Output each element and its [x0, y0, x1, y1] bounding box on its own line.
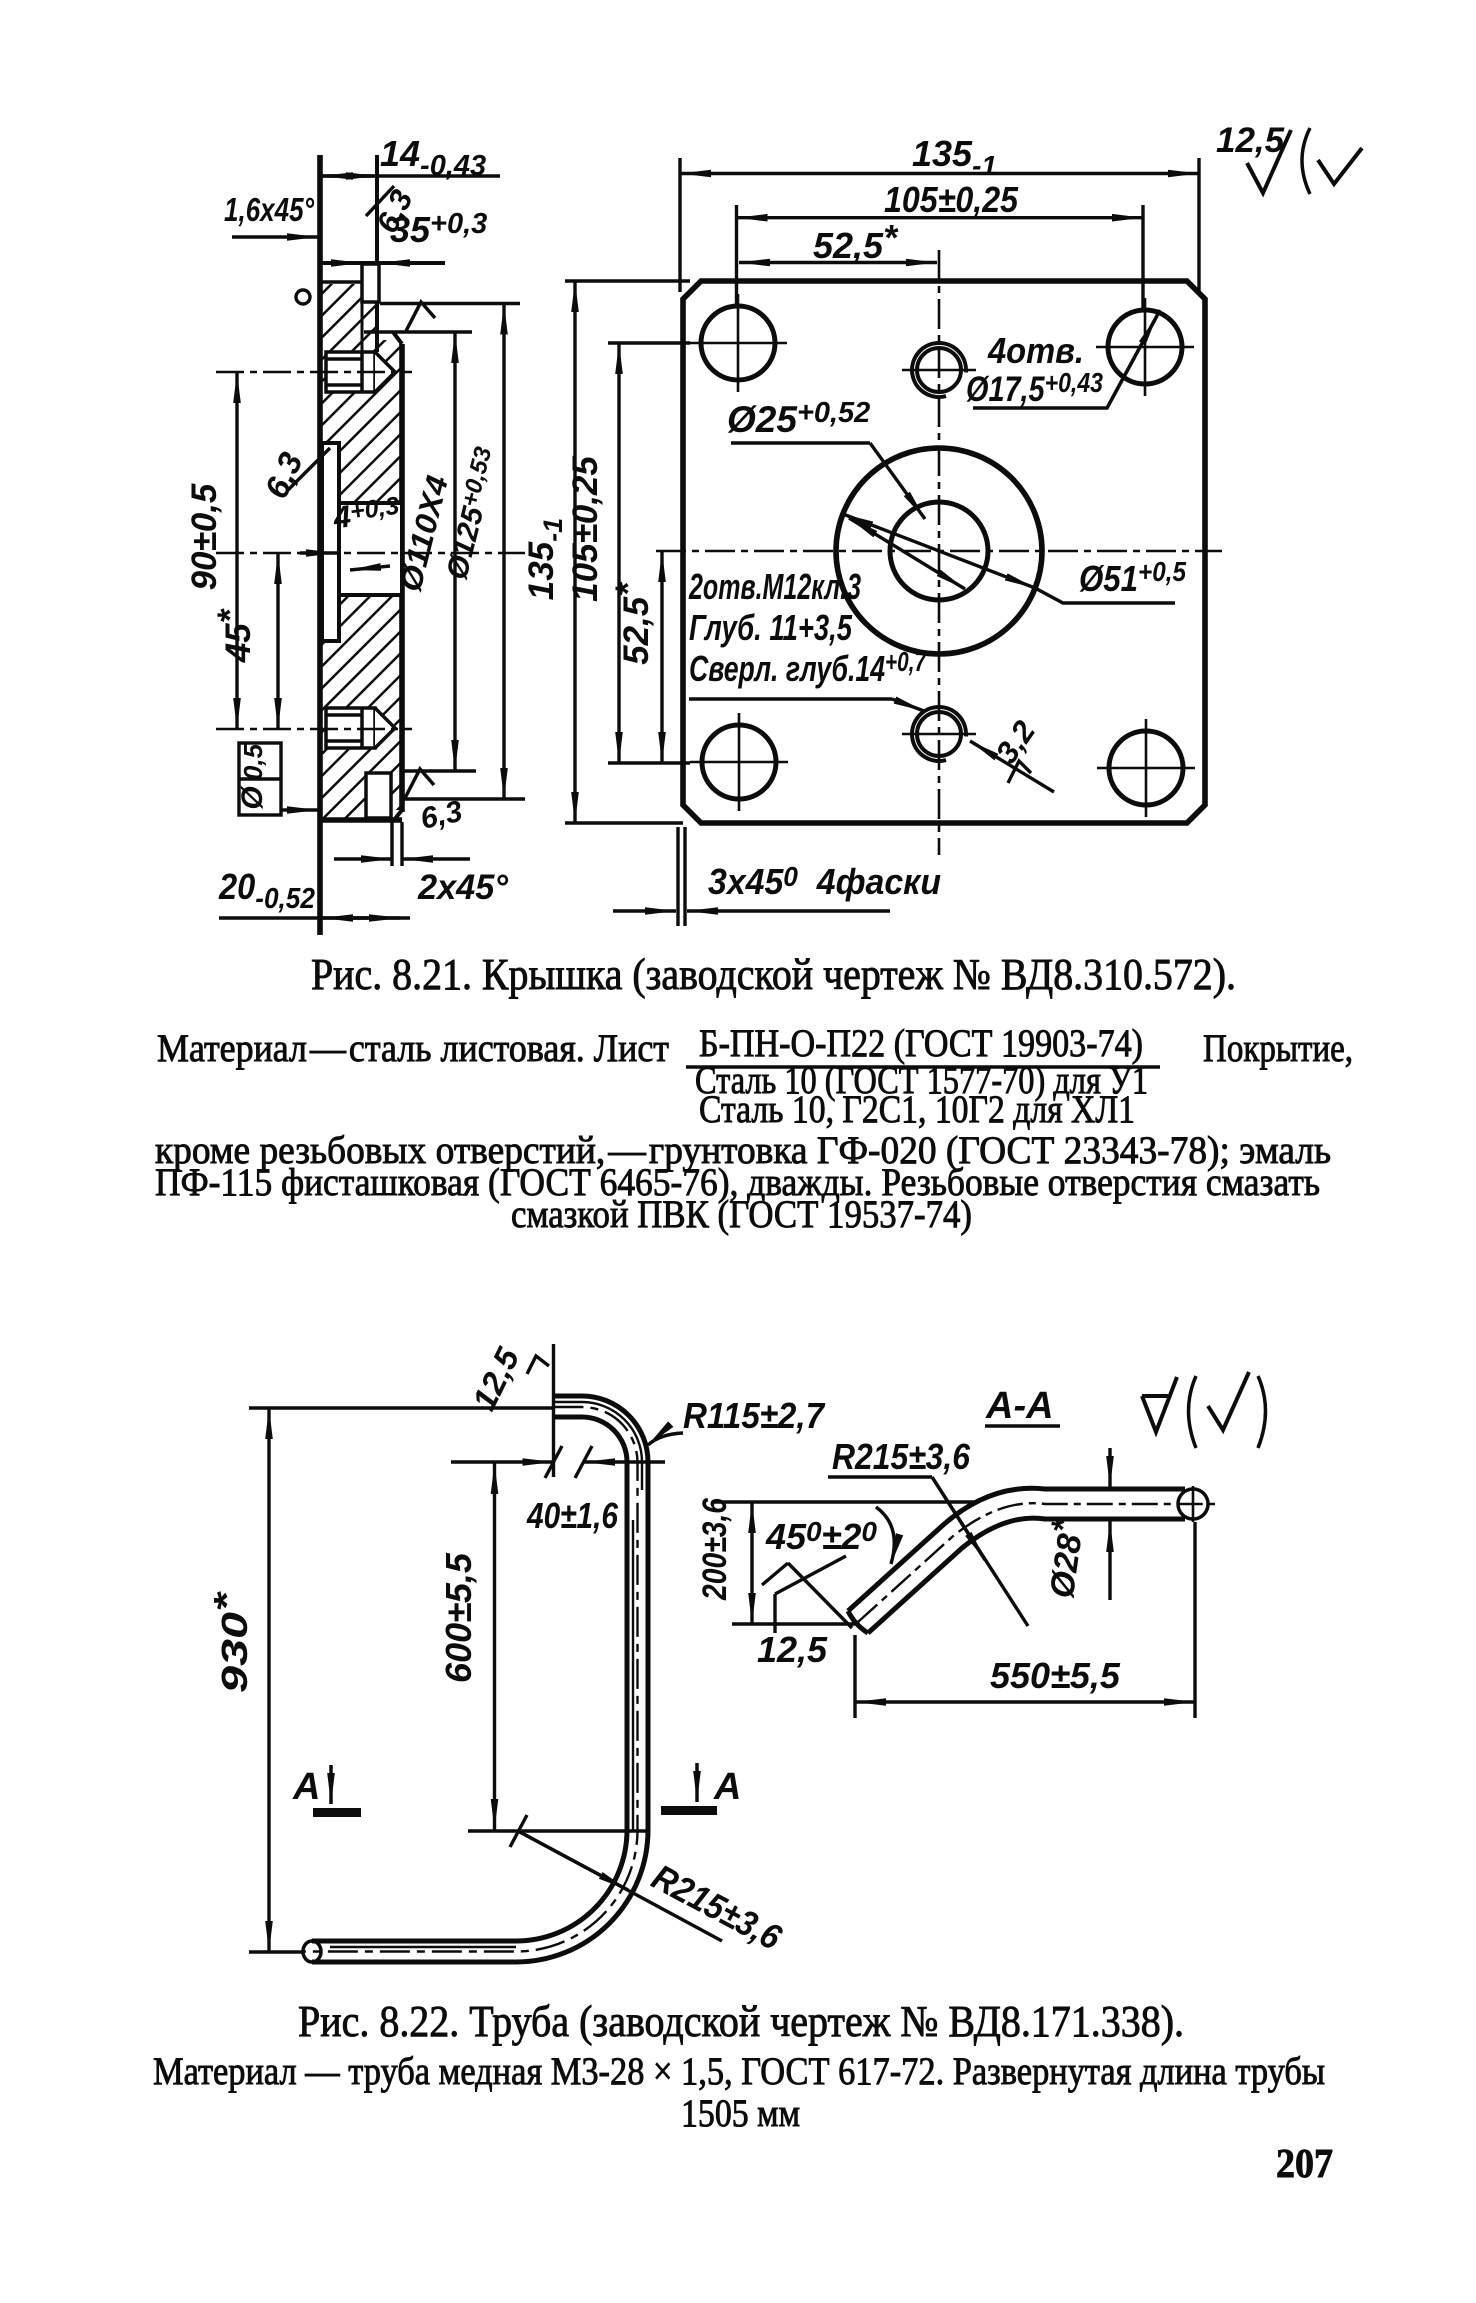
dim 35 arrows on top face	[330, 261, 362, 264]
svg-text:Материал — труба медная М3-28: Материал — труба медная М3-28 × 1,5, ГОС…	[153, 2050, 1325, 2093]
roughness check top	[406, 302, 435, 331]
leader 3,2	[970, 741, 1054, 792]
svg-text:Ø51+0,5: Ø51+0,5	[1079, 556, 1186, 599]
dim dia110 vertical	[453, 332, 456, 771]
svg-text:20-0,52: 20-0,52	[218, 866, 315, 915]
dim 45 vertical	[276, 553, 279, 729]
svg-text:12,5: 12,5	[465, 1341, 527, 1416]
inner step line	[320, 280, 377, 283]
dia28 arrows	[1108, 1448, 1111, 1487]
top extension for 930	[249, 1406, 554, 1409]
small circle end of chamfer leader	[296, 290, 310, 304]
svg-text:Покрытие,: Покрытие,	[1203, 1027, 1353, 1070]
dim 40 line	[451, 1460, 554, 1463]
svg-text:450±20: 450±20	[765, 1516, 877, 1557]
upper right face vertical	[375, 155, 379, 352]
centerlines	[656, 250, 1222, 855]
right face of boss	[399, 344, 405, 812]
dia110 top extension	[364, 330, 472, 334]
final roughness symbols	[1142, 1377, 1177, 1432]
leader dia25	[731, 441, 870, 444]
svg-text:Рис. 8.22. Труба (заводской че: Рис. 8.22. Труба (заводской чертеж № ВД8…	[298, 1997, 1184, 2046]
tolerance frame box	[239, 743, 318, 815]
svg-text:200±3,6: 200±3,6	[696, 1497, 734, 1601]
svg-text:0,5: 0,5	[238, 743, 268, 780]
svg-text:Рис. 8.21. Крышка (заводской ч: Рис. 8.21. Крышка (заводской чертеж № ВД…	[311, 950, 1236, 999]
left face vertical	[317, 155, 323, 935]
tube reflection lines	[330, 1402, 642, 1947]
hatched body	[322, 284, 377, 820]
chamfer leader 1,6x45	[232, 235, 318, 238]
svg-text:Ø: Ø	[236, 785, 269, 810]
chamfer 2x45 ext lines	[390, 822, 393, 866]
45 leader to vertex	[788, 1563, 852, 1628]
R215 leader A-A	[828, 1475, 932, 1478]
svg-text:R215±3,6: R215±3,6	[645, 1856, 789, 1958]
leader slash for 6,3 top	[366, 186, 394, 216]
dim 4+0,3 arrows at recess	[300, 551, 337, 554]
svg-text:4отв.: 4отв.	[987, 330, 1084, 371]
tube centerline	[302, 1407, 638, 1952]
dia125 top extension	[380, 302, 520, 306]
svg-text:105±0,25: 105±0,25	[884, 179, 1019, 220]
svg-text:A: A	[292, 1766, 320, 1808]
dim 200	[750, 1502, 753, 1624]
bottom extension for 930	[249, 1950, 302, 1953]
svg-text:A-A: A-A	[985, 1385, 1054, 1427]
svg-text:смазкой ПВК (ГОСТ 19537-74): смазкой ПВК (ГОСТ 19537-74)	[511, 1193, 972, 1236]
A-A underline	[985, 1424, 1060, 1428]
FIG 8.22 main view labels	[206, 1341, 826, 1958]
svg-text:Ø125+0,53: Ø125+0,53	[439, 444, 506, 583]
groove in top face	[362, 264, 379, 302]
svg-text:Ø25+0,52: Ø25+0,52	[727, 397, 870, 440]
svg-text:A: A	[713, 1766, 741, 1808]
lower extension line	[732, 1622, 855, 1625]
svg-text:135-1: 135-1	[912, 133, 997, 181]
tube outer lines	[312, 1396, 648, 1962]
svg-text:3,2: 3,2	[989, 714, 1042, 769]
svg-text:35+0,3: 35+0,3	[390, 208, 487, 250]
lower M12 hole section	[326, 708, 395, 748]
dim 930	[267, 1408, 270, 1952]
R115 leader	[648, 1433, 683, 1445]
FIG 8.21 front view labels	[522, 121, 1285, 902]
dia51 leader	[1035, 588, 1175, 603]
roughness check bottom	[405, 769, 434, 798]
svg-text:R215±3,6: R215±3,6	[832, 1436, 971, 1477]
check mark above 12,5 top	[527, 1356, 549, 1374]
dim dia125 vertical	[502, 304, 505, 800]
svg-text:600±5,5: 600±5,5	[438, 1552, 479, 1683]
dim 550	[853, 1635, 856, 1718]
top face	[320, 261, 445, 265]
svg-text:12,5: 12,5	[757, 1629, 828, 1670]
svg-text:90±0,5: 90±0,5	[185, 483, 224, 590]
dia25 hole	[339, 503, 402, 595]
svg-text:1505 мм: 1505 мм	[681, 2092, 800, 2135]
svg-text:Сталь 10, Г2С1, 10Г2 для ХЛ1: Сталь 10, Г2С1, 10Г2 для ХЛ1	[699, 1088, 1135, 1131]
big center hole	[836, 448, 1042, 654]
dim 14 top	[322, 174, 500, 177]
dia51 recess in left face	[322, 443, 339, 641]
tube end cap	[303, 1941, 321, 1962]
svg-text:Материал — сталь листовая. Лис: Материал — сталь листовая. Лист	[157, 1027, 669, 1070]
left extension lines	[565, 281, 690, 823]
FIG 8.22 A-A labels	[696, 1385, 1121, 1696]
R215 leader lower	[518, 1831, 722, 1941]
centerline	[858, 1503, 1215, 1622]
cap end line	[552, 1344, 555, 1477]
corner hole crosshairs	[689, 294, 1195, 817]
svg-text:2отв.М12кл.3: 2отв.М12кл.3	[688, 566, 861, 607]
corner hole TL	[701, 306, 1183, 805]
svg-text:1,6x45°: 1,6x45°	[224, 191, 315, 228]
plate outline with corner chamfers	[683, 281, 1205, 823]
dim 90 vertical	[235, 372, 238, 729]
leader dia17.5 to TR hole	[973, 310, 1160, 408]
svg-text:135-1: 135-1	[522, 518, 568, 600]
diameter diagonal lines	[849, 518, 965, 589]
svg-text:R115±2,7: R115±2,7	[683, 1395, 826, 1436]
svg-text:2x45°: 2x45°	[417, 868, 509, 907]
svg-text:Ø28*: Ø28*	[1035, 1516, 1092, 1601]
roughness symbol top right	[1247, 128, 1362, 194]
centerlines dash-dot	[216, 372, 525, 729]
lower right recess	[366, 773, 391, 818]
svg-text:Ø17,5+0,43: Ø17,5+0,43	[966, 367, 1103, 409]
top dimension lines	[680, 158, 1199, 312]
dim 600	[493, 1463, 496, 1830]
svg-text:550±5,5: 550±5,5	[990, 1655, 1121, 1696]
svg-text:Сверл. глуб.14+0,7: Сверл. глуб.14+0,7	[689, 646, 927, 689]
svg-text:52,5*: 52,5*	[609, 582, 656, 665]
svg-text:3x450 4фаски: 3x450 4фаски	[708, 861, 941, 902]
svg-text:45*: 45*	[211, 608, 258, 663]
tube outline	[848, 1488, 1185, 1633]
svg-text:6,3: 6,3	[257, 447, 309, 504]
FIG 8.21 left view labels	[185, 133, 509, 915]
45 degree arc	[876, 1507, 894, 1564]
M12 holes center top and bottom	[912, 343, 966, 761]
bottom chamfer dim	[613, 827, 890, 926]
leader 2otv M12	[689, 697, 892, 700]
dia110 bottom extension	[402, 769, 476, 773]
svg-text:12,5: 12,5	[1216, 121, 1285, 160]
svg-text:52,5*: 52,5*	[813, 217, 899, 266]
12,5 leader	[773, 1594, 776, 1633]
svg-text:930*: 930*	[206, 1590, 255, 1693]
bottom face	[320, 817, 402, 823]
upper M12 hole section	[326, 352, 395, 392]
dia125 bottom extension	[402, 797, 525, 801]
svg-text:6,3: 6,3	[418, 795, 466, 836]
svg-text:105±0,25: 105±0,25	[566, 456, 605, 602]
svg-text:207: 207	[1276, 2140, 1333, 2186]
leader slash for 6,3 left	[288, 448, 330, 490]
upper extension line	[715, 1500, 975, 1503]
svg-text:Глуб. 11+3,5: Глуб. 11+3,5	[689, 607, 853, 648]
svg-text:40±1,6: 40±1,6	[526, 1495, 619, 1536]
dim 20 bottom	[219, 916, 410, 919]
A section marks	[331, 1763, 697, 1804]
